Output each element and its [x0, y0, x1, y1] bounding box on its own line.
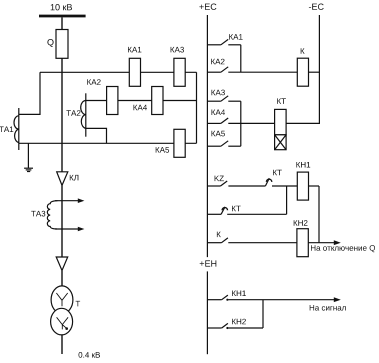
wire TA2 bottom to bus: [86, 128, 107, 143]
label KA2 contact: [211, 59, 224, 65]
contact KT timed 1: [265, 178, 297, 186]
label KA4: [134, 105, 148, 111]
contact KH1: [207, 295, 334, 301]
relay coil KA3: [174, 58, 185, 86]
contact KT timed 2: [207, 207, 286, 215]
star symbol winding 2 with neutral dot: [57, 317, 69, 330]
relay coil KH1: [297, 172, 308, 200]
contact KH2: [207, 323, 263, 329]
label KA5: [156, 147, 169, 153]
label KH2 coil: [294, 220, 308, 226]
contact KA4: [207, 118, 274, 123]
label KA5 contact: [212, 131, 225, 137]
time element box with X: [275, 135, 287, 150]
relay coil KA5: [174, 129, 185, 157]
wire bottom bus row 3: [19, 142, 197, 144]
wire KH1 to output junction: [309, 185, 320, 187]
label na otklyuchenie Q: [311, 245, 375, 252]
label 10 кВ: [51, 4, 72, 10]
contact KA2: [207, 67, 297, 72]
relay coil KA4: [152, 87, 163, 115]
label na signal: [310, 305, 346, 311]
arrow to trip Q: [334, 240, 341, 245]
relay coil KT: [275, 109, 287, 134]
wire right rail EC: [286, 15, 319, 123]
label KA3: [171, 47, 184, 53]
cable end triangle: [56, 257, 67, 271]
label KT contact 1: [273, 170, 282, 176]
label KL: [70, 175, 79, 181]
contact KA5: [207, 141, 240, 146]
wire left rail EH: [206, 271, 208, 354]
wire relay row 1: [40, 71, 197, 73]
wire KA3/KA5 junction vertical: [240, 101, 242, 146]
wire right return vertical: [196, 72, 198, 143]
arrow to signal: [334, 297, 341, 302]
ground: [24, 143, 33, 171]
label +EC: [199, 4, 216, 10]
label KA1: [128, 47, 141, 53]
relay coil KA2: [107, 87, 118, 115]
wire feeder top: [61, 17, 63, 29]
label KA3 contact: [212, 90, 225, 96]
label K contact: [217, 232, 221, 238]
label TA2: [66, 110, 80, 116]
wire feeder mid2: [61, 185, 63, 257]
label K coil: [301, 48, 305, 54]
label KH2 contact: [232, 319, 246, 325]
wire feeder mid1: [61, 58, 63, 172]
label Q: [47, 39, 53, 47]
label KH1 coil: [296, 162, 310, 168]
current transformer TA1: [14, 108, 19, 150]
current transformer TA2: [81, 93, 86, 136]
relay coil KA1: [129, 58, 140, 86]
contact K: [207, 238, 297, 243]
transformer T winding 2: [51, 308, 73, 335]
wire output junction vertical: [318, 186, 320, 243]
contact KZ: [207, 181, 265, 186]
transformer T winding 1: [51, 286, 73, 314]
label KT contact 2: [232, 206, 241, 212]
breaker Q: [56, 30, 68, 59]
busbar 10kV: [39, 15, 86, 18]
label TA3: [31, 211, 45, 217]
wire feeder bottom: [61, 335, 63, 354]
label +EH: [200, 260, 217, 266]
relay coil KH2: [297, 229, 308, 257]
wire KA1 to KA2 row: [240, 45, 242, 72]
label KT coil: [277, 98, 286, 104]
wire KH2 to KH1 branch: [262, 300, 264, 328]
contact KA3: [207, 96, 240, 101]
label KA1 contact: [229, 34, 242, 40]
label TA1: [0, 127, 13, 133]
wire feeder mid3: [61, 271, 63, 287]
relay coil K: [297, 58, 308, 86]
wire KT2 junction vertical: [286, 186, 288, 214]
wire TA1 top to relay row 1: [19, 72, 40, 114]
label KA2: [87, 79, 100, 85]
wire K coil to right rail: [309, 71, 320, 73]
wire left rail EC: [206, 15, 208, 257]
label -EC: [309, 4, 324, 10]
wire relay row 2: [86, 100, 197, 102]
cable KL triangle: [57, 172, 68, 186]
star symbol winding 1: [56, 293, 67, 306]
label T: [76, 301, 81, 307]
label 0.4 кВ: [79, 352, 101, 358]
label KH1 contact: [232, 291, 246, 297]
contact KA1: [207, 39, 240, 44]
wire KH2 to arrow: [308, 242, 334, 244]
current transformer TA3: [47, 198, 84, 231]
label KA4 contact: [212, 110, 226, 116]
label KZ contact: [215, 176, 224, 182]
